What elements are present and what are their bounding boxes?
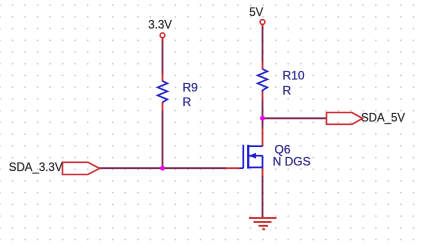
svg-text:R10: R10 (283, 69, 305, 83)
svg-text:SDA_5V: SDA_5V (361, 112, 405, 124)
svg-text:N DGS: N DGS (273, 155, 311, 169)
svg-text:R: R (283, 83, 292, 97)
svg-text:5V: 5V (249, 7, 263, 19)
svg-text:R9: R9 (183, 81, 199, 95)
svg-text:SDA_3.3V: SDA_3.3V (9, 162, 63, 174)
svg-text:R: R (183, 95, 192, 109)
svg-text:3.3V: 3.3V (148, 20, 172, 32)
